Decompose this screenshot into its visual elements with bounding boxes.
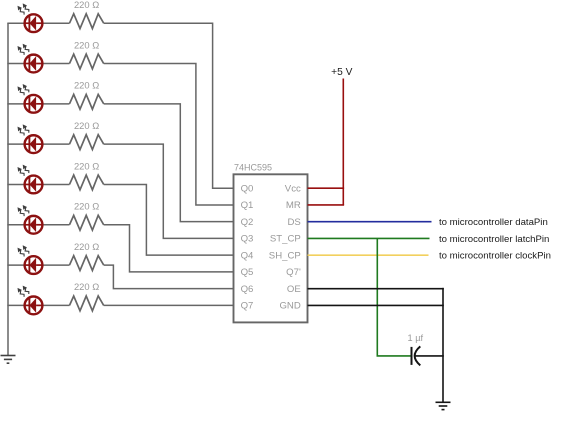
svg-text:DS: DS	[287, 217, 300, 228]
svg-text:Vcc: Vcc	[285, 183, 301, 194]
wire: LED3 to resistor R3	[42, 103, 69, 105]
op-amp/IC U1 74HC595 body	[234, 174, 308, 322]
wire: R1 output to IC pin Q0	[104, 23, 235, 188]
value label C1: 1 uf	[408, 333, 424, 343]
resistor R1 220 ohm	[70, 14, 104, 29]
value label R2: 220 ohm	[74, 39, 99, 50]
value label R3: 220 ohm	[74, 80, 99, 91]
wire: bus to LED4	[7, 143, 24, 145]
svg-text:to microcontroller clockPin: to microcontroller clockPin	[439, 251, 551, 262]
IC U1 pin label Q2	[241, 217, 254, 228]
wire: ground rail vertical	[442, 288, 444, 402]
wire: bus to LED3	[7, 103, 24, 105]
svg-text:220 Ω: 220 Ω	[74, 201, 99, 212]
svg-text:220 Ω: 220 Ω	[74, 120, 99, 131]
IC U1 part label: 74HC595	[234, 163, 272, 173]
svg-text:+5 V: +5 V	[331, 67, 352, 78]
value label R4: 220 ohm	[74, 120, 99, 131]
wire: R6 output to IC pin Q5	[104, 225, 235, 272]
power +5V net wire (Vcc, MR)	[308, 79, 345, 205]
svg-text:SH_CP: SH_CP	[269, 250, 301, 261]
LED4	[18, 124, 43, 153]
resistor R6 220 ohm	[70, 215, 104, 230]
ground (left, LED bus)	[1, 356, 16, 364]
IC U1 pin label Q5	[241, 267, 254, 278]
IC U1 pin label Q7'	[286, 267, 301, 278]
svg-text:Q0: Q0	[241, 183, 254, 194]
IC U1 pin label SH_CP	[269, 250, 301, 261]
wire: R7 output to IC pin Q6	[104, 265, 235, 289]
value label R8: 220 ohm	[74, 281, 99, 292]
capacitor C1 1uF (polarized)	[412, 346, 421, 365]
svg-text:MR: MR	[286, 200, 301, 211]
IC U1 pin label Q0	[241, 183, 254, 194]
svg-text:220 Ω: 220 Ω	[74, 80, 99, 91]
IC U1 pin label MR	[286, 200, 301, 211]
wire: LED2 to resistor R2	[42, 63, 69, 65]
wire: bus to LED2	[7, 63, 24, 65]
wire: ST_CP to microcontroller latchPin (green)	[308, 237, 430, 239]
wire: LED7 to resistor R7	[42, 264, 69, 266]
svg-text:to microcontroller dataPin: to microcontroller dataPin	[439, 217, 548, 228]
wire: bus to LED7	[7, 264, 24, 266]
wire: LED6 to resistor R6	[42, 224, 69, 226]
wire: LED4 to resistor R4	[42, 143, 69, 145]
svg-text:Q1: Q1	[241, 200, 254, 211]
value label R6: 220 ohm	[74, 201, 99, 212]
power label +5 V	[331, 67, 352, 78]
wire: latch net branch down to capacitor C1 (green)	[377, 238, 410, 355]
wire: DS to microcontroller dataPin (blue)	[308, 221, 432, 223]
wire: R3 output to IC pin Q2	[104, 104, 235, 222]
IC U1 pin label Q4	[241, 250, 254, 261]
wire: LED1 to resistor R1	[42, 22, 69, 24]
wire: LED cathode bus	[7, 23, 9, 355]
svg-text:1 µf: 1 µf	[408, 333, 424, 343]
wire: SH_CP to microcontroller clockPin (yellow)	[308, 254, 429, 256]
LED7	[18, 245, 43, 274]
wire: GND to ground rail (black)	[308, 304, 444, 306]
svg-text:Q3: Q3	[241, 234, 254, 245]
wire: R4 output to IC pin Q3	[104, 144, 235, 238]
resistor R4 220 ohm	[70, 135, 104, 150]
wire: R5 output to IC pin Q4	[104, 184, 235, 255]
IC U1 pin label Q3	[241, 234, 254, 245]
LED6	[18, 205, 43, 234]
IC U1 pin label Q1	[241, 200, 254, 211]
LED3	[18, 84, 43, 113]
svg-text:74HC595: 74HC595	[234, 163, 272, 173]
wire: OE to ground rail (black)	[308, 288, 444, 290]
svg-text:Q2: Q2	[241, 217, 254, 228]
ground (right, under ground rail)	[436, 402, 451, 409]
svg-text:220 Ω: 220 Ω	[74, 160, 99, 171]
wire: LED5 to resistor R5	[42, 183, 69, 185]
wire: R2 output to IC pin Q1	[104, 64, 235, 205]
svg-text:Q7': Q7'	[286, 267, 301, 278]
svg-text:220 Ω: 220 Ω	[74, 281, 99, 292]
node label: to microcontroller latchPin	[439, 234, 549, 245]
value label R7: 220 ohm	[74, 241, 99, 252]
svg-text:OE: OE	[287, 284, 301, 295]
IC U1 pin label OE	[287, 284, 301, 295]
value label R5: 220 ohm	[74, 160, 99, 171]
LED5	[18, 165, 43, 194]
svg-text:GND: GND	[279, 301, 300, 312]
svg-text:to microcontroller latchPin: to microcontroller latchPin	[439, 234, 549, 245]
IC U1 pin label GND	[279, 301, 300, 312]
wire: capacitor C1 negative lead to ground rail (black)	[415, 355, 444, 357]
LED2	[18, 44, 43, 73]
IC U1 pin label Vcc	[285, 183, 301, 194]
svg-text:Q4: Q4	[241, 250, 254, 261]
LED8	[18, 286, 43, 315]
node label: to microcontroller clockPin	[439, 251, 551, 262]
resistor R5 220 ohm	[70, 175, 104, 190]
svg-text:ST_CP: ST_CP	[270, 234, 301, 245]
IC U1 pin label Q7	[241, 301, 254, 312]
node label: to microcontroller dataPin	[439, 217, 548, 228]
IC U1 pin label Q6	[241, 284, 254, 295]
svg-text:220 Ω: 220 Ω	[74, 241, 99, 252]
svg-text:Q5: Q5	[241, 267, 254, 278]
LED1	[18, 3, 43, 32]
svg-text:220 Ω: 220 Ω	[74, 0, 99, 10]
wire: bus to LED5	[7, 183, 24, 185]
IC U1 pin label DS	[287, 217, 300, 228]
wire: bus to LED6	[7, 224, 24, 226]
wire: bus to LED8	[7, 304, 24, 306]
value label R1: 220 ohm	[74, 0, 99, 10]
resistor R3 220 ohm	[70, 94, 104, 109]
wire: bus to LED1	[7, 22, 24, 24]
svg-text:Q7: Q7	[241, 301, 254, 312]
svg-text:220 Ω: 220 Ω	[74, 39, 99, 50]
svg-text:Q6: Q6	[241, 284, 254, 295]
resistor R2 220 ohm	[70, 54, 104, 69]
wire: LED8 to resistor R8	[42, 304, 69, 306]
wire: R8 output to IC pin Q7	[104, 304, 235, 306]
resistor R8 220 ohm	[70, 296, 104, 311]
resistor R7 220 ohm	[70, 256, 104, 271]
IC U1 pin label ST_CP	[270, 234, 301, 245]
